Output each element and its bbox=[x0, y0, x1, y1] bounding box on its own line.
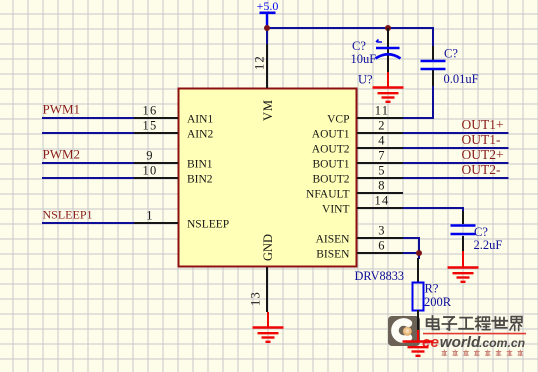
svg-text:C?: C? bbox=[444, 47, 458, 61]
watermark text 电子工程世界 bbox=[427, 316, 522, 330]
pin 6 BISEN bbox=[316, 239, 403, 261]
svg-text:OUT2+: OUT2+ bbox=[462, 147, 504, 162]
svg-text:VCP: VCP bbox=[327, 114, 349, 126]
pin 5 BOUT2 bbox=[312, 164, 403, 186]
svg-text:15: 15 bbox=[143, 119, 158, 133]
svg-text:5: 5 bbox=[378, 164, 385, 178]
svg-text:BIN1: BIN1 bbox=[187, 159, 213, 171]
svg-text:10uF: 10uF bbox=[351, 52, 377, 66]
pin 3 AISEN bbox=[316, 224, 403, 246]
svg-text:DRV8833: DRV8833 bbox=[355, 269, 405, 283]
ground U? below 10uF bbox=[358, 72, 404, 102]
svg-text:NSLEEP1: NSLEEP1 bbox=[43, 208, 93, 222]
power +5.0 symbol bbox=[257, 0, 279, 28]
watermark red rule bbox=[423, 333, 526, 335]
pin 16 AIN1 bbox=[133, 104, 213, 126]
wire OUT1- bbox=[403, 147, 509, 149]
svg-text:BOUT1: BOUT1 bbox=[312, 159, 349, 171]
wire BISEN to resistor bbox=[403, 253, 420, 259]
svg-text:C?: C? bbox=[474, 225, 488, 239]
pin 12 VM (top) bbox=[253, 43, 276, 121]
junction at VM rail bbox=[264, 25, 270, 31]
wire NSLEEP1 bbox=[42, 222, 134, 224]
svg-text:200R: 200R bbox=[424, 295, 452, 309]
svg-text:10: 10 bbox=[143, 164, 158, 178]
ground below resistor bbox=[403, 330, 434, 356]
wire AIN2 bbox=[42, 132, 134, 134]
wire VINT to C 2.2uF bbox=[403, 208, 464, 213]
svg-text:PWM2: PWM2 bbox=[43, 147, 81, 162]
watermark slogan 创新电子设计之源 bbox=[442, 350, 523, 356]
capacitor C? 10uF polarized bbox=[351, 28, 401, 73]
resistor R? 200R bbox=[413, 258, 452, 311]
svg-text:12: 12 bbox=[253, 55, 267, 70]
wire +5.0 rail to VM and caps bbox=[267, 28, 434, 47]
svg-text:PWM1: PWM1 bbox=[43, 102, 81, 117]
svg-text:U?: U? bbox=[358, 73, 373, 87]
svg-text:2: 2 bbox=[378, 119, 385, 133]
eeworld watermark logo icon bbox=[388, 316, 420, 346]
pin 13 GND (bottom) bbox=[249, 234, 276, 312]
svg-text:BISEN: BISEN bbox=[316, 249, 350, 261]
wire OUT1+ bbox=[403, 132, 509, 134]
svg-text:BIN2: BIN2 bbox=[187, 174, 213, 186]
svg-text:4: 4 bbox=[378, 134, 385, 148]
wire OUT2- bbox=[403, 177, 509, 179]
svg-text:7: 7 bbox=[378, 149, 385, 163]
pin 8 NFAULT bbox=[306, 179, 403, 201]
svg-text:AIN2: AIN2 bbox=[187, 129, 213, 141]
svg-text:AISEN: AISEN bbox=[316, 234, 351, 246]
wire AISEN to BISEN junction bbox=[403, 238, 420, 254]
pin 1 NSLEEP bbox=[133, 209, 229, 231]
pin 4 AOUT2 bbox=[312, 134, 403, 156]
svg-text:NSLEEP: NSLEEP bbox=[187, 219, 229, 231]
wire PWM1/AIN1 bbox=[42, 117, 134, 119]
svg-text:OUT2-: OUT2- bbox=[462, 162, 501, 177]
capacitor C? 0.01uF bbox=[421, 46, 479, 86]
svg-text:NFAULT: NFAULT bbox=[306, 189, 349, 201]
watermark text eeworld.com.cn bbox=[422, 334, 525, 351]
svg-text:0.01uF: 0.01uF bbox=[444, 72, 479, 86]
svg-text:9: 9 bbox=[146, 149, 153, 163]
svg-text:13: 13 bbox=[249, 291, 263, 306]
pin 9 BIN1 bbox=[133, 149, 213, 171]
svg-text:GND: GND bbox=[261, 234, 275, 261]
svg-text:1: 1 bbox=[146, 209, 153, 223]
junction at 10uF cap bbox=[385, 25, 391, 31]
svg-text:3: 3 bbox=[378, 224, 385, 238]
svg-text:VINT: VINT bbox=[322, 204, 349, 216]
svg-text:2.2uF: 2.2uF bbox=[474, 238, 503, 252]
pin 2 AOUT1 bbox=[312, 119, 403, 141]
wire BIN2 bbox=[42, 177, 134, 179]
capacitor C? 2.2uF bbox=[451, 211, 503, 252]
svg-text:14: 14 bbox=[375, 194, 390, 208]
svg-text:OUT1+: OUT1+ bbox=[462, 117, 504, 132]
svg-text:AOUT1: AOUT1 bbox=[312, 129, 350, 141]
svg-text:+5.0: +5.0 bbox=[257, 0, 279, 13]
svg-text:8: 8 bbox=[378, 179, 385, 193]
wire OUT2+ bbox=[403, 162, 509, 164]
svg-text:OUT1-: OUT1- bbox=[462, 132, 501, 147]
svg-text:AOUT2: AOUT2 bbox=[312, 144, 350, 156]
wire 0.01uF cap to VCP bbox=[403, 84, 434, 118]
svg-text:11: 11 bbox=[375, 104, 389, 118]
wire resistor to ground bbox=[417, 310, 419, 331]
svg-text:6: 6 bbox=[378, 239, 385, 253]
svg-text:world: world bbox=[440, 334, 481, 351]
pin 14 VINT bbox=[322, 194, 403, 216]
pin 11 VCP bbox=[327, 104, 403, 126]
pin 15 AIN2 bbox=[133, 119, 213, 141]
pin 10 BIN2 bbox=[133, 164, 213, 186]
ground below 2.2uF bbox=[448, 251, 479, 282]
svg-text:R?: R? bbox=[425, 282, 439, 296]
junction AISEN/BISEN bbox=[416, 250, 422, 256]
op-amp-style IC body U DRV8833 bbox=[179, 89, 357, 267]
svg-text:C?: C? bbox=[352, 39, 366, 53]
ground below GND pin 13 bbox=[253, 312, 284, 342]
svg-text:16: 16 bbox=[143, 104, 158, 118]
svg-text:BOUT2: BOUT2 bbox=[312, 174, 349, 186]
svg-text:VM: VM bbox=[261, 99, 275, 121]
pin 7 BOUT1 bbox=[312, 149, 403, 171]
wire PWM2/BIN1 bbox=[42, 162, 134, 164]
svg-text:.com.cn: .com.cn bbox=[479, 336, 525, 350]
svg-text:AIN1: AIN1 bbox=[187, 114, 213, 126]
